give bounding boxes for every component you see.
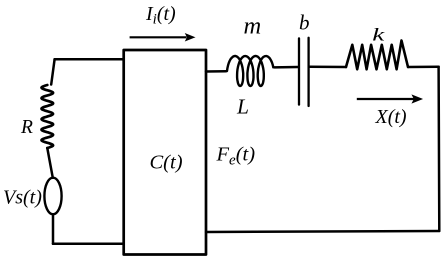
wire left vertical to resistor [51, 59, 54, 84]
wire source to bottom corner [52, 214, 55, 244]
svg-text:b: b [299, 11, 310, 35]
svg-text:k: k [372, 25, 385, 45]
svg-text:R: R [20, 117, 33, 138]
wire coil to capacitor [275, 66, 298, 69]
svg-text:C(t): C(t) [150, 152, 183, 174]
svg-text:Vs(t): Vs(t) [3, 187, 42, 209]
transducer box C(t) [124, 50, 206, 255]
capacitor b left plate [298, 38, 300, 104]
svg-text:L: L [236, 95, 249, 119]
voltage source Vs [44, 178, 61, 215]
wire top-left horizontal [55, 58, 124, 61]
wire right vertical [437, 67, 440, 231]
svg-text:Ii(t): Ii(t) [145, 3, 176, 28]
svg-text:X(t): X(t) [375, 106, 407, 128]
displacement arrow X(t) [357, 95, 422, 102]
wire bottom-right horizontal [206, 231, 439, 232]
resistor R [42, 85, 54, 148]
wire capacitor to spring [310, 66, 346, 69]
wire resistor to source [47, 148, 53, 178]
current arrow Ii(t) [130, 34, 195, 41]
wire spring to right corner [408, 66, 439, 69]
inductor coil m [227, 56, 273, 86]
spring k [346, 41, 408, 70]
wire box to coil [206, 70, 226, 73]
wire bottom-left horizontal [53, 243, 124, 246]
svg-text:m: m [244, 13, 262, 40]
capacitor b right plate [307, 38, 309, 106]
svg-text:Fe(t): Fe(t) [216, 144, 256, 169]
